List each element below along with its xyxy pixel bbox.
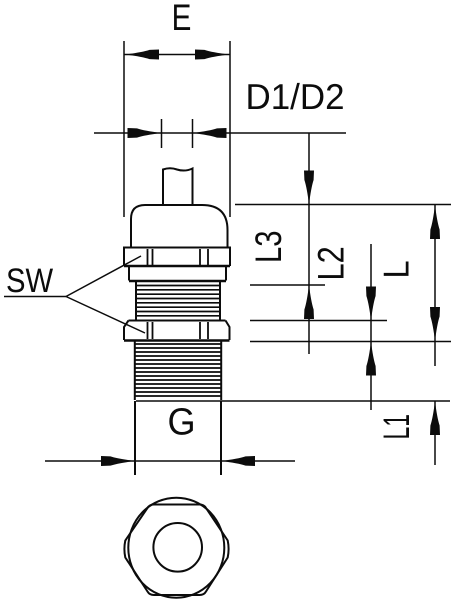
extension line top of cap y=204.5	[235, 204, 451, 206]
bottom view circumscribed circle	[128, 498, 224, 598]
svg-text:E: E	[172, 0, 192, 38]
lower thread section sides	[135, 342, 221, 401]
locknut band	[129, 267, 226, 281]
dimension L3 line	[308, 133, 310, 354]
extension line y=341.5	[250, 341, 451, 343]
dimension E extension line left	[123, 41, 125, 217]
svg-text:G: G	[167, 402, 195, 444]
dimension L arrow up	[430, 205, 440, 239]
lower thread lines	[135, 344, 221, 396]
dimension L line	[434, 205, 436, 366]
locknut band bottom line	[129, 280, 226, 282]
hex nut 2 facet lines	[148, 322, 209, 339]
extension line y=320.5	[250, 320, 387, 322]
dimension L2 arrow down	[366, 287, 376, 321]
dimension D1/D2 line	[94, 132, 346, 134]
upper thread lines	[136, 286, 220, 316]
SW leader horizontal	[4, 296, 66, 298]
dimension L3 arrow up	[304, 285, 314, 319]
dimension E arrow left	[125, 50, 159, 60]
dimension L2 arrow up	[366, 342, 376, 376]
dimension E line	[124, 54, 230, 56]
extension line y=285	[250, 284, 325, 286]
hex nut 2 outline	[124, 321, 230, 341]
dimension E arrow right	[195, 50, 229, 60]
svg-text:D1/D2: D1/D2	[246, 76, 345, 117]
extension line y=401	[136, 400, 450, 402]
dimension L3 arrow down	[304, 171, 314, 205]
SW leader to lower nut	[66, 297, 145, 334]
dimension G line	[45, 460, 295, 462]
dimension D1/D2 tick left	[161, 119, 163, 148]
svg-text:L2: L2	[311, 246, 352, 280]
svg-text:SW: SW	[6, 262, 53, 300]
svg-text:L: L	[376, 260, 417, 278]
dimension D1/D2 arrow right	[193, 128, 227, 138]
hex nut 1 facet lines	[148, 249, 209, 265]
dimension D1/D2 tick right	[192, 119, 194, 148]
dimension E extension line right	[229, 41, 231, 217]
dimension G arrow left	[101, 456, 135, 466]
dimension D1/D2 arrow left	[128, 128, 162, 138]
svg-text:L3: L3	[248, 230, 289, 263]
bottom view hexagon	[124, 505, 228, 596]
dome cap	[131, 205, 228, 247]
dimension L arrow down	[430, 307, 440, 341]
cable stub	[163, 168, 193, 205]
upper thread section sides	[136, 282, 220, 320]
hex nut 1 bottom line	[124, 265, 230, 268]
SW leader to upper nut	[66, 256, 141, 297]
G cylinder sides	[135, 401, 221, 475]
hex nut 1 outline	[124, 248, 230, 267]
dimension L1 arrow up	[430, 401, 440, 435]
dimension L2 line	[370, 244, 372, 410]
dimension G arrow right	[221, 456, 255, 466]
bottom view bore circle	[153, 523, 202, 572]
hex nut 2 bottom line	[124, 339, 230, 342]
svg-text:L1: L1	[376, 414, 417, 440]
dimension L1 line	[434, 401, 436, 465]
